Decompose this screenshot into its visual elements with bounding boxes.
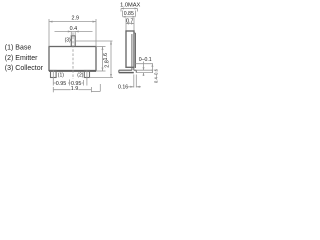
svg-text:0.4: 0.4 (70, 26, 78, 32)
center line (dashed) (72, 32, 74, 79)
svg-text:2.9: 2.9 (72, 16, 80, 22)
dim 0.7 (126, 18, 133, 24)
dim 0.4 (tab width) (70, 32, 72, 36)
pin 1 lead (51, 71, 57, 78)
side view body (126, 31, 134, 67)
svg-text:(1) Base: (1) Base (5, 44, 32, 51)
pin 2 lead (84, 71, 89, 78)
foot of pin 3 pointing right (133, 67, 135, 70)
svg-text:0.4–0.6: 0.4–0.6 (154, 68, 159, 83)
svg-text:(2): (2) (77, 73, 83, 79)
labels (1) (2) (58, 73, 84, 79)
pin center extension lines (52, 71, 54, 86)
svg-text:1.6: 1.6 (103, 53, 109, 61)
lead face line inside body (131, 34, 133, 67)
svg-text:0–0.1: 0–0.1 (139, 57, 152, 63)
pin label list (5, 44, 44, 72)
right side extension lines (136, 63, 154, 65)
package body (top view) (49, 47, 96, 71)
dim 0.95 / 0.95 (68, 80, 70, 86)
svg-text:(1): (1) (58, 73, 64, 79)
dim 0.16 extension lines (133, 75, 135, 88)
svg-text:0.16: 0.16 (118, 85, 128, 91)
dim 2.9 (48, 19, 50, 47)
svg-text:(2) Emitter: (2) Emitter (5, 55, 38, 62)
dim 1.9 (52, 87, 54, 92)
svg-text:1.9: 1.9 (71, 86, 79, 92)
svg-text:(3): (3) (65, 37, 71, 43)
foot of pins 1/2 pointing left (131, 67, 133, 70)
svg-text:1.0MAX: 1.0MAX (120, 3, 140, 9)
dim 1.6 (body width, rotated) (96, 46, 106, 48)
dim 0.4-0.6 (lead length, rotated) (151, 64, 153, 73)
svg-text:(3) Collector: (3) Collector (5, 65, 44, 72)
dim 0-0.1 (standoff) (143, 62, 145, 71)
label (3) (65, 37, 71, 43)
dim 0.85 (124, 11, 134, 17)
collector tab pin 3 (71, 36, 75, 47)
svg-text:2.8: 2.8 (104, 60, 110, 68)
svg-text:0.95: 0.95 (56, 81, 67, 87)
dim 2.8 (overall, rotated) (75, 40, 112, 42)
dim 1.0MAX (120, 3, 140, 9)
